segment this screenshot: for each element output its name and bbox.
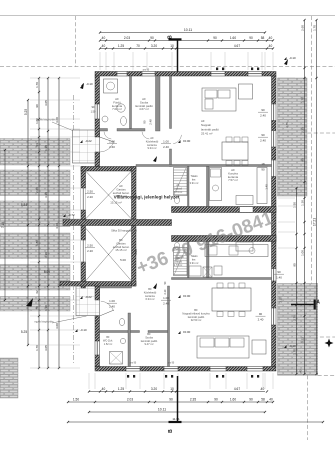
svg-text:egyéb kiegészítés: egyéb kiegészítés: [34, 321, 54, 324]
svg-text:kerámia: kerámia: [145, 294, 155, 298]
svg-text:4.67: 4.67: [234, 44, 240, 48]
svg-text:pm 90: pm 90: [143, 70, 150, 72]
svg-text:-0.10: -0.10: [289, 56, 296, 60]
svg-text:±0.00: ±0.00: [183, 294, 191, 298]
svg-text:90: 90: [261, 168, 265, 172]
svg-text:3.05: 3.05: [44, 345, 48, 351]
svg-text:2.48: 2.48: [149, 119, 153, 125]
svg-text:2.00: 2.00: [35, 187, 39, 193]
svg-text:7.19: 7.19: [1, 222, 5, 228]
svg-text:5.25: 5.25: [21, 330, 27, 334]
svg-text:90: 90: [249, 398, 253, 402]
svg-text:1.60: 1.60: [230, 398, 236, 402]
svg-text:1.70: 1.70: [300, 97, 304, 103]
svg-text:1.30: 1.30: [300, 200, 304, 206]
svg-text:1.00: 1.00: [109, 299, 115, 303]
svg-text:2.35: 2.35: [190, 398, 196, 402]
svg-text:1.52 m²: 1.52 m²: [104, 343, 113, 346]
svg-text:AF: AF: [176, 184, 180, 187]
svg-text:10.11: 10.11: [184, 28, 192, 32]
svg-text:17.21: 17.21: [312, 218, 316, 226]
svg-text:1.70: 1.70: [35, 345, 39, 351]
svg-text:BF: BF: [194, 308, 198, 312]
svg-text:2.10: 2.10: [164, 289, 167, 294]
svg-text:2.40: 2.40: [258, 318, 264, 322]
svg-text:pm 90: pm 90: [168, 363, 175, 365]
svg-text:10: 10: [170, 44, 174, 48]
svg-text:40: 40: [269, 398, 273, 402]
svg-text:-0.10: -0.10: [80, 328, 87, 332]
svg-text:1.00: 1.00: [163, 140, 169, 144]
svg-text:BF: BF: [147, 332, 151, 336]
svg-text:Közlekedő: Közlekedő: [144, 290, 157, 294]
svg-text:1.30: 1.30: [44, 145, 48, 151]
svg-text:±0.00: ±0.00: [183, 330, 191, 334]
svg-text:1.00: 1.00: [163, 296, 169, 300]
svg-text:7.57 m²: 7.57 m²: [228, 178, 238, 182]
svg-text:-0.72: -0.72: [68, 213, 75, 217]
svg-text:Silka 30 hanggátló fal: Silka 30 hanggátló fal: [111, 229, 137, 233]
svg-text:90: 90: [249, 36, 253, 40]
svg-text:62: 62: [35, 290, 39, 294]
svg-text:2.50: 2.50: [87, 244, 93, 248]
svg-text:1.00: 1.00: [300, 250, 304, 256]
svg-text:90: 90: [300, 158, 304, 162]
svg-text:2.03: 2.03: [124, 36, 130, 40]
svg-text:5.25: 5.25: [24, 109, 28, 115]
svg-text:15.15 m²: 15.15 m²: [110, 201, 121, 205]
svg-text:90: 90: [259, 312, 263, 316]
svg-text:Közlekedő: Közlekedő: [146, 139, 159, 143]
svg-text:2.60: 2.60: [300, 25, 304, 31]
svg-text:5.69: 5.69: [44, 270, 50, 274]
svg-text:90: 90: [213, 36, 217, 40]
svg-text:1.60: 1.60: [230, 36, 236, 40]
svg-text:4.10: 4.10: [55, 223, 59, 229]
svg-text:±0.00: ±0.00: [183, 139, 191, 143]
svg-text:-0.22: -0.22: [85, 139, 92, 143]
svg-text:5.00: 5.00: [120, 258, 126, 262]
svg-text:.40: .40: [101, 387, 106, 391]
svg-text:AF: AF: [150, 136, 154, 140]
svg-text:2.10: 2.10: [279, 297, 283, 303]
svg-text:1.70: 1.70: [35, 82, 39, 88]
svg-text:2.75: 2.75: [285, 122, 289, 128]
svg-text:2.40: 2.40: [260, 139, 266, 143]
svg-text:90: 90: [150, 36, 154, 40]
svg-text:-0.10: -0.10: [289, 344, 296, 348]
svg-text:1.70: 1.70: [312, 25, 316, 31]
svg-text:Szoba: Szoba: [145, 335, 153, 339]
svg-text:ker.: ker.: [192, 177, 196, 181]
svg-text:Nappali étkező konyha: Nappali étkező konyha: [182, 311, 210, 315]
svg-text:1.70: 1.70: [292, 349, 296, 355]
svg-text:15.15 m²: 15.15 m²: [115, 248, 126, 252]
svg-text:2.70: 2.70: [292, 315, 296, 321]
svg-text:2.25: 2.25: [300, 127, 304, 133]
svg-text:3.05: 3.05: [44, 100, 48, 106]
svg-text:90: 90: [277, 270, 281, 274]
svg-text:BF: BF: [148, 287, 152, 291]
svg-text:90: 90: [292, 263, 296, 267]
svg-text:2.03: 2.03: [127, 398, 133, 402]
svg-text:2.20: 2.20: [87, 195, 93, 199]
svg-text:1.80: 1.80: [35, 240, 39, 246]
svg-text:-0.22: -0.22: [85, 295, 92, 299]
svg-text:laminált padló: laminált padló: [141, 339, 158, 343]
svg-text:6.34 m²: 6.34 m²: [145, 297, 154, 301]
svg-text:B: B: [168, 429, 174, 433]
svg-text:3.91 m²: 3.91 m²: [190, 261, 199, 265]
svg-text:.40: .40: [268, 36, 273, 40]
svg-text:3.20: 3.20: [151, 44, 157, 48]
svg-text:egyéb kiegészítés: egyéb kiegészítés: [36, 119, 56, 122]
svg-text:3.00: 3.00: [55, 323, 59, 329]
svg-text:7.02 m²: 7.02 m²: [112, 107, 122, 111]
svg-text:9.34 m²: 9.34 m²: [147, 146, 156, 150]
svg-text:Lépcső: Lépcső: [174, 188, 183, 191]
svg-text:.40: .40: [101, 44, 106, 48]
svg-text:1.00: 1.00: [109, 140, 115, 144]
svg-text:25.41 m²: 25.41 m²: [201, 132, 212, 136]
svg-text:3.00: 3.00: [134, 249, 138, 255]
svg-text:kerámia: kerámia: [147, 143, 157, 147]
svg-text:A: A: [316, 300, 320, 306]
svg-text:3.30: 3.30: [44, 192, 48, 198]
svg-text:2.40: 2.40: [163, 302, 169, 306]
svg-text:1.50: 1.50: [292, 202, 296, 208]
svg-text:.40: .40: [268, 44, 273, 48]
svg-text:2.40: 2.40: [109, 145, 115, 149]
svg-text:1.40: 1.40: [276, 276, 282, 280]
svg-text:-0.10: -0.10: [86, 82, 93, 86]
svg-text:10: 10: [170, 387, 174, 391]
svg-text:1.25: 1.25: [118, 387, 124, 391]
svg-text:3.30: 3.30: [44, 252, 48, 258]
svg-text:2.40: 2.40: [260, 114, 266, 118]
svg-text:5.84: 5.84: [21, 203, 27, 207]
svg-text:1.40: 1.40: [265, 184, 269, 190]
svg-text:2.50: 2.50: [87, 190, 93, 194]
svg-text:1.25: 1.25: [118, 44, 124, 48]
svg-text:2.40: 2.40: [163, 145, 169, 149]
svg-text:B: B: [168, 35, 174, 39]
svg-text:pm 90: pm 90: [130, 363, 137, 365]
svg-text:Tálaló: Tálaló: [190, 174, 198, 178]
svg-text:3.20: 3.20: [151, 387, 157, 391]
svg-text:58: 58: [261, 398, 265, 402]
svg-text:.40: .40: [260, 387, 265, 391]
svg-text:4.67 m²: 4.67 m²: [139, 107, 149, 111]
svg-text:9.47 m²: 9.47 m²: [144, 342, 153, 346]
svg-text:58: 58: [261, 36, 265, 40]
svg-text:32.50 m²: 32.50 m²: [191, 318, 202, 322]
svg-text:90: 90: [143, 120, 147, 124]
svg-text:10.11: 10.11: [158, 408, 166, 412]
svg-text:90: 90: [261, 108, 265, 112]
svg-text:90: 90: [35, 104, 39, 108]
svg-text:64: 64: [35, 143, 39, 147]
svg-text:1.30: 1.30: [44, 305, 48, 311]
svg-text:70: 70: [136, 44, 140, 48]
svg-text:90: 90: [214, 398, 218, 402]
svg-text:3.91 m²: 3.91 m²: [190, 181, 199, 185]
svg-text:5.12: 5.12: [300, 337, 304, 343]
svg-text:1.50: 1.50: [73, 398, 79, 402]
svg-text:90: 90: [261, 133, 265, 137]
svg-text:11.61: 11.61: [172, 417, 180, 421]
svg-text:18: 18: [261, 162, 265, 166]
svg-text:2.40: 2.40: [109, 305, 115, 309]
svg-text:Villamossági, jelenlegi helyze: Villamossági, jelenlegi helyzet: [114, 195, 180, 200]
svg-text:.40: .40: [101, 36, 106, 40]
svg-text:laminált padló: laminált padló: [188, 315, 205, 319]
svg-text:2.20: 2.20: [87, 249, 93, 253]
svg-text:70: 70: [35, 306, 39, 310]
svg-text:90: 90: [169, 398, 173, 402]
svg-text:4.67: 4.67: [234, 387, 240, 391]
